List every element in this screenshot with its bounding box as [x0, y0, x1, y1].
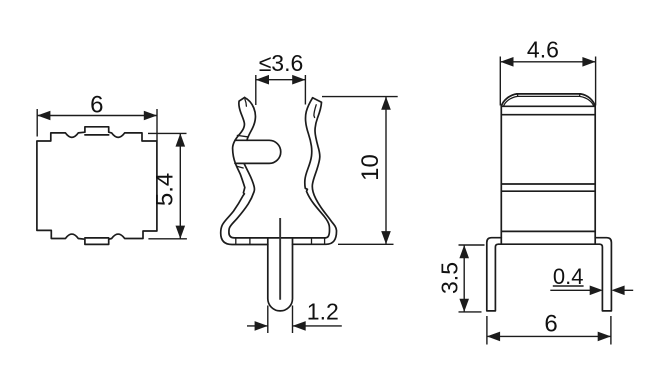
flange bend ticks — [236, 238, 325, 245]
dim 3.6 extension lines — [256, 75, 306, 105]
dim 6 line (top view) — [37, 115, 157, 117]
left tip fold line — [245, 99, 247, 106]
dim 6 arrows (front) — [487, 332, 500, 342]
dim 0.4 leader lines — [550, 289, 633, 291]
dim 1.2 arrows — [255, 321, 268, 331]
dim 6 extension lines (front) — [487, 316, 611, 345]
svg-text:6: 6 — [544, 311, 557, 338]
bend tick below tab — [237, 166, 243, 168]
dim 0.4 underline — [553, 285, 584, 287]
dim 4.6 extension lines — [500, 57, 595, 106]
dim 1.2 leader lines — [247, 325, 342, 327]
dim 5.4 extension lines — [148, 133, 187, 238]
dim 3.5 arrows — [459, 245, 469, 258]
dim 6 extension lines (top view) — [37, 109, 157, 141]
cap right shoulder — [581, 94, 596, 106]
dim 4.6 arrows — [500, 57, 513, 67]
dim 10 line — [385, 97, 387, 245]
left leg — [487, 238, 502, 311]
cap top edge — [517, 93, 581, 95]
right arm outer edge — [293, 98, 337, 245]
svg-text:4.6: 4.6 — [527, 37, 559, 63]
dim 3.6 line — [256, 79, 306, 81]
cap left shoulder — [501, 94, 517, 106]
body horizontal lines — [501, 106, 595, 231]
left arm inner edge — [245, 98, 256, 141]
dim 3.5 line — [463, 245, 465, 312]
right leg — [595, 238, 611, 311]
pin centerline — [279, 218, 281, 300]
svg-text:3.5: 3.5 — [437, 262, 463, 294]
dim 3.6 arrows — [256, 75, 269, 85]
svg-text:6: 6 — [90, 92, 103, 119]
svg-text:≤3.6: ≤3.6 — [259, 50, 304, 76]
dim 3.5 extension lines — [459, 245, 485, 312]
right tip fold line — [314, 105, 316, 118]
right arm inner edge — [305, 98, 330, 238]
tab (rivet) stadium — [235, 140, 281, 163]
top view outline — [37, 127, 157, 245]
dim 1.2 extension lines — [268, 306, 293, 334]
cap inner edge line — [518, 94, 580, 97]
pin (solder lead) — [268, 239, 293, 311]
body sides — [501, 106, 595, 244]
dim 10 extension lines — [322, 97, 398, 245]
dim 0.4 arrows — [590, 286, 603, 296]
svg-text:10: 10 — [357, 154, 384, 181]
top view tab crossbars — [85, 135, 109, 238]
left arm outer edge — [221, 98, 268, 245]
dim 5.4 line — [179, 133, 181, 238]
svg-text:0.4: 0.4 — [553, 264, 584, 289]
bottom plate line — [498, 243, 599, 245]
dim 6 line (front) — [487, 335, 611, 337]
dim 4.6 line — [500, 61, 595, 63]
svg-text:5.4: 5.4 — [152, 173, 179, 206]
bend tick above tab — [237, 135, 247, 136]
svg-text:1.2: 1.2 — [307, 299, 339, 325]
dim 5.4 arrows — [176, 133, 186, 146]
dim 10 arrows — [381, 97, 391, 110]
dim 6 arrows (top view) — [37, 111, 50, 121]
